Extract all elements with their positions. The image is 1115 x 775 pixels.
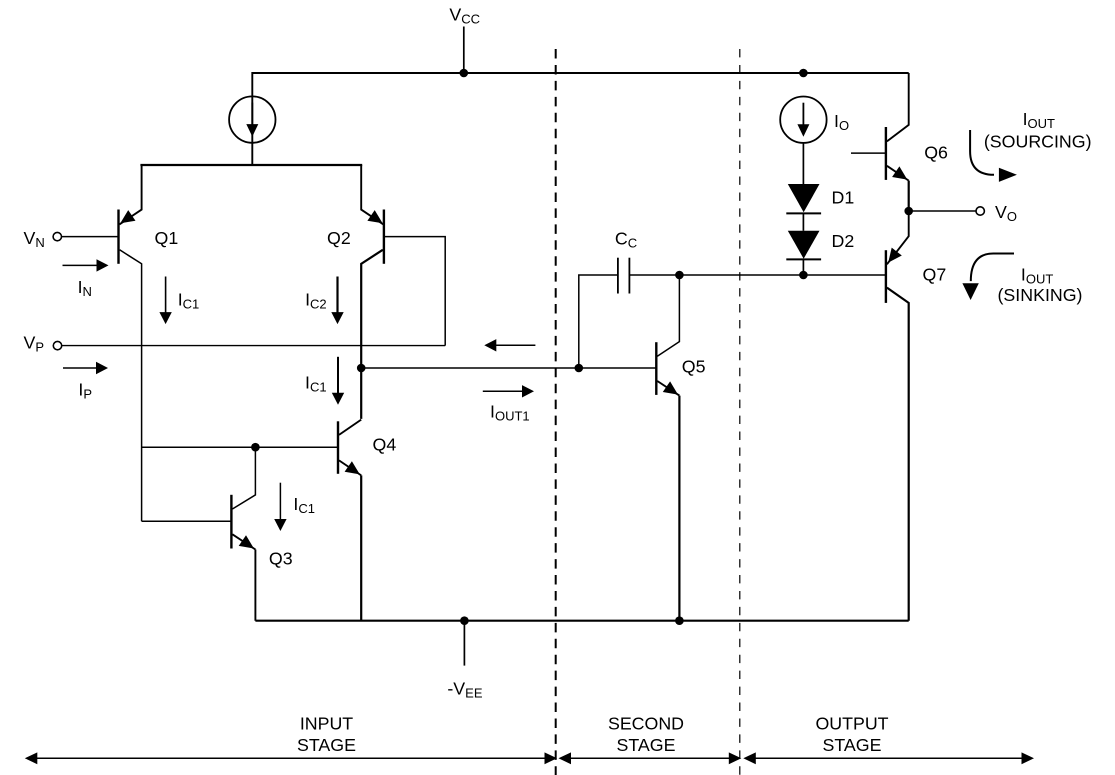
transistor Q1: [119, 165, 142, 521]
node VO junction: [904, 207, 913, 216]
svg-text:(SOURCING): (SOURCING): [984, 132, 1092, 152]
wire VO lead: [909, 210, 976, 212]
svg-text:STAGE: STAGE: [297, 735, 356, 755]
transistor Q5: [656, 275, 679, 621]
wire CC left leg: [579, 275, 618, 368]
label IO: [834, 111, 849, 133]
wire D1 to D2: [802, 213, 804, 230]
label IP: [78, 380, 92, 402]
current arrow IC1 at Q4 collector: [332, 357, 344, 405]
label D2: [832, 231, 855, 251]
wire CC to Q7 base: [629, 274, 886, 276]
label SOURCING: [984, 132, 1092, 152]
current arrow IOUT sourcing: [970, 130, 1017, 182]
svg-text:D1: D1: [832, 188, 855, 208]
wire VEE bottom rail: [255, 620, 908, 622]
wire VCC stem: [463, 27, 465, 74]
svg-text:(SINKING): (SINKING): [998, 285, 1083, 305]
diode D1: [786, 184, 821, 213]
label VP: [24, 332, 45, 354]
label IC1 at Q3: [293, 494, 315, 516]
label IOUT sourcing: [1023, 109, 1055, 131]
svg-text:STAGE: STAGE: [823, 735, 882, 755]
label OUTPUT STAGE: [815, 714, 888, 755]
node Q5 emitter rail junction: [675, 616, 684, 625]
wire Q2 base feedback: [384, 237, 445, 346]
current source input stage: [229, 96, 275, 142]
label IOUT1: [490, 402, 530, 424]
label IC1 under Q1: [178, 289, 200, 311]
wire Q3 base lead: [142, 520, 232, 522]
label -VEE: [447, 678, 482, 700]
svg-text:OUTPUT: OUTPUT: [815, 714, 888, 734]
VCC label: [449, 4, 480, 26]
svg-text:STAGE: STAGE: [617, 735, 676, 755]
label Q1: [155, 228, 179, 248]
label Q5: [682, 357, 706, 377]
node VCC rail junction: [460, 69, 469, 78]
node Q3 collector junction: [251, 443, 260, 452]
svg-text:Q2: Q2: [327, 228, 351, 248]
svg-text:Q6: Q6: [924, 143, 948, 163]
transistor Q2: [361, 165, 384, 419]
terminal VP: [53, 341, 61, 349]
wire IOUT1 to Q5 base: [361, 367, 656, 369]
wire Q1 base lead: [62, 236, 119, 238]
label Q7: [923, 265, 947, 285]
label Q4: [373, 435, 397, 455]
svg-text:Q4: Q4: [373, 435, 397, 455]
svg-text:INPUT: INPUT: [300, 714, 353, 734]
label IC1 at Q4 collector: [305, 373, 327, 395]
current arrow IOUT1: [483, 385, 534, 397]
label Q6: [924, 143, 948, 163]
label Q2: [327, 228, 351, 248]
current arrow IOUT sinking: [962, 254, 1014, 301]
node VEE junction: [460, 616, 469, 625]
terminal VN: [53, 232, 61, 240]
transistor Q3: [231, 447, 255, 621]
node CC left junction: [575, 364, 584, 373]
node Q5 collector junction: [675, 271, 684, 280]
label D1: [832, 188, 855, 208]
wire VP line: [62, 345, 445, 347]
label INPUT STAGE: [297, 714, 356, 755]
node output stage rail junction: [799, 69, 808, 78]
span arrow input stage: [25, 752, 557, 764]
svg-text:D2: D2: [832, 231, 855, 251]
svg-text:SECOND: SECOND: [608, 714, 684, 734]
label CC: [615, 228, 637, 250]
current source IO: [780, 97, 826, 143]
label IN: [78, 277, 92, 299]
wire Q3-Q4 base line: [142, 446, 338, 448]
svg-text:Q5: Q5: [682, 357, 706, 377]
label VN: [24, 228, 45, 250]
label IC2 under Q2: [305, 289, 327, 311]
current arrow left at VP level: [484, 339, 535, 351]
terminal VO: [976, 207, 984, 215]
current arrow IP: [63, 362, 108, 374]
capacitor CC right plate: [628, 258, 630, 294]
transistor Q7: [886, 211, 909, 621]
divider second/output stage: [739, 49, 741, 775]
current arrow IC1 under Q1: [159, 277, 171, 325]
node Q2-Q4 collector junction: [357, 364, 366, 373]
label Q3: [269, 549, 293, 569]
wire Q6 base stub: [851, 152, 886, 154]
svg-text:Q7: Q7: [923, 265, 947, 285]
wire IO to D1: [802, 143, 804, 184]
label SECOND STAGE: [608, 714, 684, 755]
svg-text:Q3: Q3: [269, 549, 293, 569]
label IOUT sinking: [1021, 265, 1053, 287]
current arrow IN: [63, 259, 109, 271]
span arrow second stage: [559, 752, 742, 764]
wire VCC top rail: [252, 73, 908, 165]
capacitor CC left plate: [617, 258, 619, 294]
label VO: [995, 202, 1017, 224]
current arrow IC2 under Q2: [331, 277, 343, 325]
current arrow IC1 at Q3: [274, 483, 286, 531]
diode D2: [786, 231, 821, 260]
transistor Q6: [886, 73, 909, 211]
wire VEE stem: [463, 621, 465, 666]
svg-text:Q1: Q1: [155, 228, 179, 248]
transistor Q4: [338, 420, 361, 621]
node D2 junction: [799, 271, 808, 280]
wire emitter bar Q1-Q2: [140, 164, 362, 166]
span arrow output stage: [743, 752, 1034, 764]
divider input/second stage: [555, 49, 557, 775]
label SINKING: [998, 285, 1083, 305]
wire D2 to base line: [802, 259, 804, 275]
